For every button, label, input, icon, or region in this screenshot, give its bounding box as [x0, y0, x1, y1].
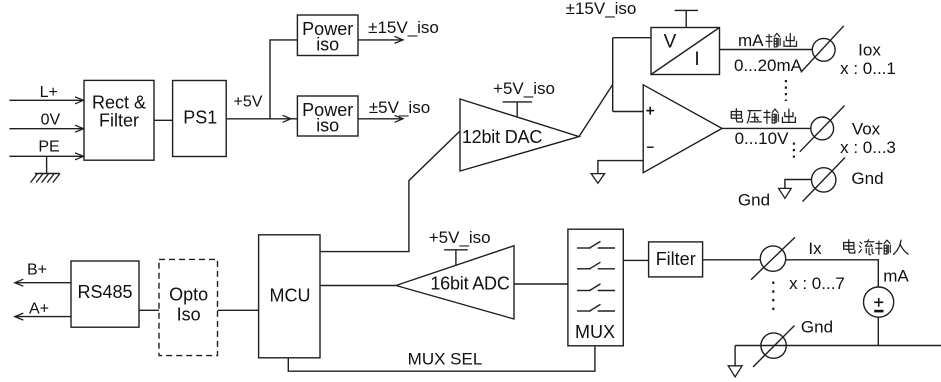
svg-text:±5V_iso: ±5V_iso — [369, 98, 430, 117]
svg-text:Gnd: Gnd — [851, 169, 883, 188]
svg-text:+5V_iso: +5V_iso — [429, 228, 491, 247]
svg-text:x : 0...3: x : 0...3 — [840, 138, 896, 157]
svg-text:±15V_iso: ±15V_iso — [368, 18, 439, 37]
svg-text:MUX: MUX — [575, 322, 615, 342]
svg-text:B+: B+ — [27, 261, 47, 278]
svg-text:+5V_iso: +5V_iso — [493, 79, 555, 98]
svg-text:L+: L+ — [40, 84, 58, 101]
svg-text:Vox: Vox — [852, 119, 881, 138]
svg-text:Iso: Iso — [177, 304, 201, 324]
svg-text:Filter: Filter — [656, 249, 696, 269]
svg-text:Opto: Opto — [169, 284, 208, 304]
svg-text:Iox: Iox — [858, 41, 881, 60]
svg-text:Rect &: Rect & — [92, 92, 146, 112]
svg-text:±15V_iso: ±15V_iso — [566, 0, 637, 18]
svg-text:A+: A+ — [29, 301, 49, 318]
svg-text:Gnd: Gnd — [738, 191, 770, 210]
svg-text:iso: iso — [316, 34, 339, 54]
svg-text:mA: mA — [738, 31, 764, 50]
svg-text:mA: mA — [883, 267, 909, 286]
svg-text:12bit DAC: 12bit DAC — [462, 127, 542, 147]
svg-text:x : 0...7: x : 0...7 — [789, 274, 845, 293]
svg-text:0...20mA: 0...20mA — [734, 56, 803, 75]
svg-text:Filter: Filter — [99, 111, 139, 131]
svg-text:I: I — [694, 49, 699, 70]
svg-text:+5V: +5V — [234, 94, 263, 111]
svg-text:MCU: MCU — [270, 286, 311, 306]
svg-text:V: V — [664, 32, 677, 53]
svg-text:PS1: PS1 — [183, 108, 217, 128]
svg-text:0...10V: 0...10V — [735, 129, 790, 148]
svg-text:Ix: Ix — [808, 239, 822, 258]
svg-text:Gnd: Gnd — [801, 318, 833, 337]
svg-text:x : 0...1: x : 0...1 — [840, 59, 896, 78]
svg-text:RS485: RS485 — [77, 282, 132, 302]
svg-text:16bit ADC: 16bit ADC — [430, 274, 509, 294]
svg-text:MUX SEL: MUX SEL — [408, 350, 483, 369]
svg-text:0V: 0V — [41, 112, 61, 129]
svg-text:PE: PE — [38, 139, 59, 156]
svg-text:iso: iso — [316, 115, 339, 135]
